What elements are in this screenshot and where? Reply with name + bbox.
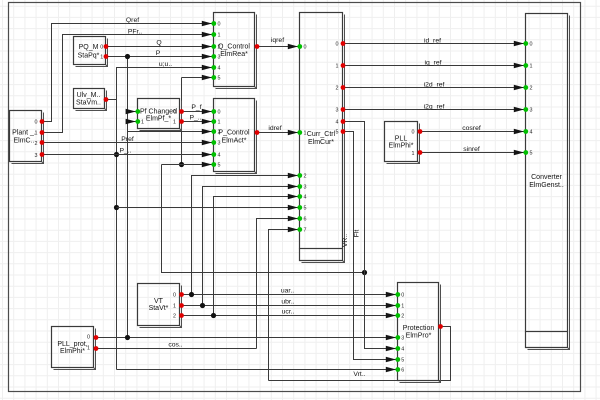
svg-text:1: 1 (530, 64, 533, 70)
svg-text:0: 0 (173, 293, 176, 299)
svg-text:ElmC..: ElmC.. (14, 137, 35, 144)
block PLL ElmPhi* (385, 122, 420, 164)
svg-text:1: 1 (218, 33, 221, 39)
junction Flt feeder (179, 162, 184, 167)
block Converter ElmGenst.. (slot) (526, 14, 570, 350)
svg-text:VT: VT (154, 298, 164, 305)
wire ucr.. (VT out2 to Protection in2) (182, 315, 396, 317)
block Protection ElmPro* (398, 283, 441, 383)
svg-text:PFr..: PFr.. (128, 28, 142, 35)
svg-text:1: 1 (35, 131, 38, 137)
svg-text:2: 2 (218, 130, 221, 136)
Plant output pins 0-3 (40, 119, 45, 124)
svg-text:1: 1 (100, 55, 103, 61)
wire VT out1 to Curr_Ctrl in3 (203, 187, 298, 306)
svg-text:PQ_M: PQ_M (79, 44, 99, 51)
svg-text:1: 1 (141, 120, 144, 126)
wire VT out0 to Curr_Ctrl in2 (192, 176, 298, 295)
junction P column at PLL_prot out0 wire (125, 335, 130, 340)
block Curr_Ctrl ElmCur* (current controller) (300, 13, 345, 263)
svg-text:cosref: cosref (462, 125, 481, 132)
block Plant ElmC.. (slot) (10, 111, 44, 164)
wire Protection output return loop (269, 327, 451, 381)
svg-text:Qref: Qref (126, 17, 139, 24)
svg-text:Ulv_M..: Ulv_M.. (77, 92, 101, 99)
PLL output pins (418, 129, 423, 134)
junction u-column / Curr_Ctrl in5 row (114, 205, 119, 210)
junction P wire (125, 54, 130, 59)
wire iqref (Q_Control out to Curr_Ctrl in0) (257, 46, 298, 48)
wire cosref (PLL out0 to Converter in4) (420, 131, 524, 133)
svg-text:VR..: VR.. (342, 234, 349, 247)
wire P_. (Plant pin3 to P_Control in4) (42, 154, 212, 156)
svg-text:Converter: Converter (531, 174, 562, 181)
svg-text:3: 3 (304, 185, 307, 191)
wire uar.. (VT out0 to Protection in0) (182, 294, 396, 296)
wire iq_ref (Curr_Ctrl out1 to Converter in1) (343, 65, 524, 67)
wire Q (PQ_M out0 to Q_Control in2) (106, 46, 212, 48)
svg-text:0: 0 (401, 293, 404, 299)
svg-text:Protection: Protection (403, 325, 435, 332)
svg-text:6: 6 (304, 217, 307, 223)
Converter input pins 0-5 (523, 41, 528, 46)
svg-text:7: 7 (304, 228, 307, 234)
junction Flt column (362, 270, 367, 275)
svg-text:0: 0 (412, 130, 415, 136)
svg-text:P_Control: P_Control (218, 130, 250, 137)
svg-text:6: 6 (401, 368, 404, 374)
svg-text:3: 3 (35, 153, 38, 159)
wire Ulv_M output stub (106, 99, 117, 101)
wire VT out2 to Curr_Ctrl in4 (214, 197, 298, 316)
wire sinref (PLL out1 to Converter in5) (420, 152, 524, 154)
wire cos column to Curr_Ctrl in6 (257, 219, 298, 349)
svg-text:cos..: cos.. (168, 341, 182, 348)
wire id_ref (Curr_Ctrl out0 to Converter in0) (343, 43, 524, 45)
svg-text:Plant _.: Plant _. (12, 130, 36, 137)
svg-text:4: 4 (218, 153, 221, 159)
junction uar branch (189, 292, 194, 297)
svg-text:1: 1 (173, 304, 176, 310)
wire VR (Curr_Ctrl out5 to Protection in5) (343, 132, 396, 360)
svg-text:1: 1 (173, 120, 176, 126)
wire Qref (Plant pin0 to Q_Control in0) (42, 24, 212, 122)
svg-text:4: 4 (336, 120, 339, 126)
PfChanged input pins (135, 109, 140, 114)
block PQ_M StaPq* (PQ measurement) (74, 37, 108, 67)
svg-text:2: 2 (304, 174, 307, 180)
wire to P_Control in5 (162, 164, 212, 166)
wire Flt (Curr_Ctrl out4 to Protection in4) (343, 122, 396, 349)
wire u to Curr_Ctrl in5 (117, 207, 298, 209)
svg-text:P: P (156, 50, 161, 57)
svg-text:3: 3 (336, 108, 339, 114)
svg-text:P_..: P_.. (189, 114, 201, 121)
junction ubr branch (200, 303, 205, 308)
svg-text:5: 5 (304, 206, 307, 212)
svg-text:ElmGenst..: ElmGenst.. (529, 182, 564, 189)
svg-text:5: 5 (218, 76, 221, 82)
Curr_Ctrl input pins (297, 44, 302, 49)
svg-text:0: 0 (218, 110, 221, 116)
P_Control input pins 0-5 (211, 109, 216, 114)
svg-text:5: 5 (218, 163, 221, 169)
wire cos.. (PLL_prot out1) (96, 348, 257, 350)
wire idref (P_Control out to Curr_Ctrl in1) (257, 132, 298, 134)
wire Flt feeder column x181 (181, 78, 183, 165)
VT output pins 0-2 (179, 292, 184, 297)
svg-text:1: 1 (87, 346, 90, 352)
svg-text:2: 2 (530, 86, 533, 92)
svg-text:sinref: sinref (463, 146, 480, 153)
svg-text:ElmRea*: ElmRea* (220, 51, 248, 58)
svg-text:iqref: iqref (271, 37, 284, 44)
junction u-column / Plant pin3 row (114, 152, 119, 157)
svg-text:uar..: uar.. (281, 288, 294, 295)
wire to Q_Control in5 (182, 77, 212, 79)
svg-text:4: 4 (530, 130, 533, 136)
svg-text:iq_ref: iq_ref (424, 59, 441, 66)
Q_Control input pins 0-5 (211, 21, 216, 26)
svg-text:5: 5 (336, 130, 339, 136)
svg-text:0: 0 (304, 45, 307, 51)
wire into PfChanged in1 (128, 121, 136, 123)
svg-text:2: 2 (173, 314, 176, 320)
wire P branch column x127 (127, 57, 129, 338)
svg-text:Pref: Pref (121, 136, 134, 143)
svg-text:3: 3 (401, 336, 404, 342)
wire Flt return path (162, 165, 365, 273)
Protection output pin (438, 324, 443, 329)
junction ucr branch (211, 313, 216, 318)
svg-text:1: 1 (304, 131, 307, 137)
Ulv_M output pin (104, 97, 109, 102)
wire i2d_ref (Curr_Ctrl out2 to Converter in2) (343, 87, 524, 89)
svg-text:4: 4 (218, 66, 221, 72)
PLL_prot output pins (94, 335, 99, 340)
svg-text:ElmPf_*: ElmPf_* (146, 116, 172, 123)
wire PFr.. (Plant pin1 to Q_Control in1) (42, 35, 212, 133)
svg-text:P_..: P_.. (119, 147, 131, 154)
PfChanged output pins (179, 109, 184, 114)
svg-text:Q_Control: Q_Control (218, 43, 250, 50)
svg-text:3: 3 (218, 141, 221, 147)
svg-text:StaVt*: StaVt* (149, 305, 169, 312)
block P_Control ElmAct* (214, 99, 257, 174)
svg-text:Curr_Ctrl: Curr_Ctrl (307, 131, 336, 138)
svg-text:ubr..: ubr.. (281, 299, 294, 306)
Curr_Ctrl output pins 0-5 (341, 41, 346, 46)
svg-text:5: 5 (401, 358, 404, 364)
block PLL_prot ElmPhi* (52, 327, 96, 370)
svg-text:0: 0 (336, 42, 339, 48)
Protection input pins 0-6 (395, 292, 400, 297)
svg-text:0: 0 (218, 22, 221, 28)
svg-text:3: 3 (218, 55, 221, 61)
svg-text:4: 4 (304, 195, 307, 201)
svg-text:0: 0 (173, 109, 176, 115)
svg-text:StaVm..: StaVm.. (76, 99, 101, 106)
svg-text:0: 0 (35, 120, 38, 126)
svg-text:i2d_ref: i2d_ref (424, 81, 445, 88)
svg-text:ucr..: ucr.. (282, 309, 295, 316)
wire i2q_ref (Curr_Ctrl out3 to Converter in3) (343, 109, 524, 111)
svg-text:P_f: P_f (191, 104, 201, 111)
block Ulv_M.. StaVm.. (voltage measurement) (74, 89, 107, 111)
svg-text:5: 5 (530, 151, 533, 157)
svg-text:ElmCur*: ElmCur* (308, 139, 334, 146)
svg-text:2: 2 (401, 314, 404, 320)
svg-text:Vrt..: Vrt.. (353, 371, 365, 378)
svg-text:2: 2 (35, 141, 38, 147)
svg-text:ElmPhi*: ElmPhi* (60, 348, 85, 355)
svg-text:3: 3 (530, 108, 533, 114)
svg-text:1: 1 (336, 64, 339, 70)
wire P (PQ_M out1 to Q_Control in3) (106, 56, 212, 58)
wire u;u.. column (u net: Q_Control in4, down to Vrt) (117, 68, 212, 370)
svg-text:1: 1 (401, 304, 404, 310)
wire Vrt.. (u column to Protection in6) (117, 369, 396, 371)
svg-text:u;u..: u;u.. (159, 61, 172, 68)
svg-text:2: 2 (218, 45, 221, 51)
svg-text:0: 0 (530, 42, 533, 48)
svg-text:2: 2 (336, 86, 339, 92)
block Q_Control ElmRea* (214, 13, 257, 89)
svg-text:ElmPro*: ElmPro* (406, 332, 432, 339)
svg-text:0: 0 (100, 45, 103, 51)
svg-text:Q: Q (156, 39, 161, 46)
svg-text:1: 1 (412, 151, 415, 157)
wire Pref (Plant pin2 to P_Control in3) (42, 142, 212, 144)
P_Control output pin (255, 130, 260, 135)
svg-text:1: 1 (218, 120, 221, 126)
svg-text:ElmPhi*: ElmPhi* (389, 142, 414, 149)
wire to P_Control in2 (128, 131, 212, 133)
svg-text:idref: idref (268, 125, 281, 132)
wire PLL_prot out0 to Protection in3 (96, 337, 396, 339)
PQ_M output pins (104, 44, 109, 49)
block VT StaVt* (voltage transformer) (138, 284, 182, 328)
wire P_f (PfChanged out0 to P_Control in0) (182, 111, 212, 113)
svg-text:0: 0 (87, 334, 90, 340)
Q_Control output pin (255, 44, 260, 49)
block Pf Changed ElmPf_* (138, 99, 182, 131)
wire Protection loop to Curr_Ctrl in7 (269, 230, 298, 381)
svg-text:4: 4 (401, 347, 404, 353)
wire into PfChanged in0 (128, 111, 136, 113)
svg-text:StaPq*: StaPq* (78, 53, 100, 60)
svg-text:Flt: Flt (354, 230, 361, 238)
svg-text:Pf Changed: Pf Changed (140, 109, 177, 116)
svg-text:i2q_ref: i2q_ref (424, 103, 445, 110)
wire ubr.. (VT out1 to Protection in1) (182, 305, 396, 307)
wire P_- (PfChanged out1 to P_Control in1) (182, 121, 212, 123)
svg-text:id_ref: id_ref (424, 37, 441, 44)
svg-text:ElmAct*: ElmAct* (222, 137, 247, 144)
